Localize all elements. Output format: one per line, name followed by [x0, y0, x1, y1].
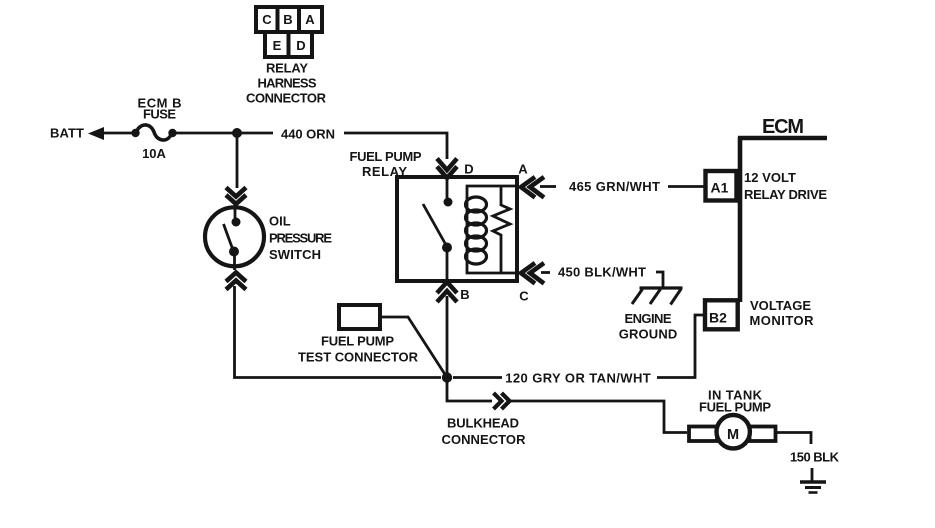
svg-text:MONITOR: MONITOR — [750, 313, 815, 328]
svg-text:FUEL PUMP: FUEL PUMP — [350, 149, 422, 164]
svg-text:GROUND: GROUND — [619, 326, 678, 341]
svg-text:465 GRN/WHT: 465 GRN/WHT — [569, 179, 660, 194]
svg-text:C: C — [262, 12, 272, 27]
svg-text:SWITCH: SWITCH — [269, 247, 321, 262]
svg-text:120 GRY OR TAN/WHT: 120 GRY OR TAN/WHT — [505, 370, 651, 385]
svg-text:B2: B2 — [709, 310, 727, 326]
svg-text:A: A — [518, 162, 528, 177]
svg-text:D: D — [464, 162, 473, 177]
svg-text:FUEL PUMP: FUEL PUMP — [699, 400, 771, 415]
svg-text:BATT: BATT — [50, 126, 84, 141]
svg-text:450 BLK/WHT: 450 BLK/WHT — [558, 265, 646, 280]
svg-text:RELAY: RELAY — [362, 164, 407, 179]
svg-text:E: E — [273, 38, 282, 53]
svg-text:BULKHEAD: BULKHEAD — [447, 416, 519, 431]
svg-text:TEST CONNECTOR: TEST CONNECTOR — [298, 350, 419, 365]
svg-text:CONNECTOR: CONNECTOR — [246, 91, 327, 106]
svg-text:OIL: OIL — [269, 214, 291, 229]
svg-text:A1: A1 — [711, 180, 729, 196]
svg-text:440 ORN: 440 ORN — [281, 127, 335, 142]
svg-text:RELAY: RELAY — [266, 61, 308, 76]
svg-text:HARNESS: HARNESS — [258, 76, 317, 91]
svg-text:PRESSURE: PRESSURE — [269, 231, 332, 246]
svg-text:CONNECTOR: CONNECTOR — [442, 432, 527, 447]
svg-text:D: D — [296, 38, 305, 53]
svg-text:C: C — [519, 289, 529, 304]
svg-text:150 BLK: 150 BLK — [790, 450, 840, 465]
svg-text:12 VOLT: 12 VOLT — [744, 170, 796, 185]
svg-text:10A: 10A — [142, 146, 166, 161]
svg-text:FUEL PUMP: FUEL PUMP — [321, 334, 394, 349]
svg-text:VOLTAGE: VOLTAGE — [750, 298, 811, 313]
svg-text:ENGINE: ENGINE — [625, 311, 672, 326]
svg-text:A: A — [305, 12, 315, 27]
svg-text:ECM: ECM — [762, 116, 804, 138]
svg-text:FUSE: FUSE — [143, 107, 176, 122]
svg-text:B: B — [460, 287, 469, 302]
svg-text:M: M — [727, 427, 739, 443]
svg-text:B: B — [283, 12, 292, 27]
svg-text:RELAY DRIVE: RELAY DRIVE — [744, 187, 827, 202]
